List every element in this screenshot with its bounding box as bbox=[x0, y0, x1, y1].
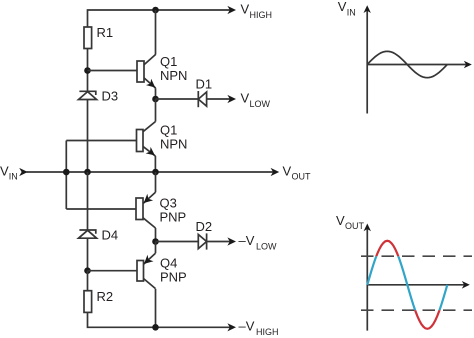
svg-text:D4: D4 bbox=[102, 227, 119, 242]
wire bottom rail bbox=[88, 312, 231, 327]
svg-text:R2: R2 bbox=[97, 289, 114, 304]
wire node to D2 bbox=[156, 241, 199, 243]
arrow V_IN input bbox=[19, 168, 28, 176]
svg-text:OUT: OUT bbox=[292, 172, 312, 182]
wire Q1b emitter to rail bbox=[154, 156, 156, 172]
wire top rail to V_HIGH bbox=[88, 10, 231, 27]
svg-text:D1: D1 bbox=[196, 76, 213, 91]
wire Q1 base bbox=[88, 70, 138, 72]
svg-text:OUT: OUT bbox=[345, 221, 365, 231]
arrow V_OUT bbox=[271, 168, 280, 176]
wire Q3 base bbox=[66, 208, 135, 210]
svg-text:R1: R1 bbox=[97, 25, 114, 40]
svg-text:–V: –V bbox=[239, 319, 255, 334]
svg-text:V: V bbox=[283, 163, 292, 178]
svg-text:V: V bbox=[338, 0, 347, 14]
svg-text:V: V bbox=[241, 1, 250, 16]
svg-text:LOW: LOW bbox=[250, 99, 271, 109]
node bottom rail bbox=[152, 324, 159, 331]
graph Vout lower clip level dashed line bbox=[361, 309, 472, 311]
transistor Q1 (top NPN) bbox=[137, 54, 187, 88]
wire input rail V_IN to V_OUT bbox=[27, 171, 274, 173]
graph Vout x-axis bbox=[367, 284, 464, 286]
graph Vout y-axis bbox=[366, 229, 368, 331]
wire node to D1 bbox=[156, 98, 199, 100]
svg-text:Q4: Q4 bbox=[160, 256, 177, 271]
resistor R2 bbox=[84, 291, 92, 313]
graph Vin sine wave bbox=[367, 51, 447, 77]
svg-text:NPN: NPN bbox=[160, 68, 187, 83]
zener diode D3 bbox=[79, 89, 119, 104]
wire Q4 collector to bottom rail bbox=[155, 289, 157, 328]
node Q3/D2/Q4 bbox=[152, 238, 159, 245]
wire Q1b collector to node bbox=[155, 99, 157, 122]
net label V_LOW bbox=[241, 90, 271, 108]
node D4/R2/Q4 base bbox=[84, 267, 91, 274]
wire D4 to node bbox=[87, 238, 89, 271]
svg-text:V: V bbox=[241, 90, 250, 105]
diode D2 bbox=[196, 219, 213, 250]
arrow V_LOW bbox=[227, 95, 236, 103]
net label V_OUT bbox=[283, 163, 312, 181]
wire rail to D4 bbox=[87, 172, 89, 230]
svg-text:LOW: LOW bbox=[256, 241, 277, 251]
net label -V_LOW bbox=[239, 233, 278, 251]
svg-text:–V: –V bbox=[239, 233, 255, 248]
zener diode D4 bbox=[79, 227, 119, 242]
node rail/diode column bbox=[84, 169, 91, 176]
wire D2 to -V_LOW bbox=[207, 241, 231, 243]
wire Q3 emitter from rail bbox=[155, 172, 157, 192]
wire node to R2 bbox=[87, 271, 89, 291]
wire R1 to D3 bbox=[87, 49, 89, 92]
wire Q4 base bbox=[88, 270, 138, 272]
wire Q3 collector to node bbox=[155, 228, 157, 242]
svg-text:V: V bbox=[336, 213, 345, 228]
net label V_IN bbox=[0, 163, 18, 181]
wire D3 to input rail bbox=[87, 100, 89, 173]
graph Vin label bbox=[338, 0, 356, 17]
wire left loop vertical bbox=[65, 141, 67, 210]
node Q1 emitter / D1 / Q1 collector bbox=[152, 96, 159, 103]
graph Vin x-axis bbox=[367, 64, 466, 66]
net label -V_HIGH bbox=[239, 319, 279, 337]
wire Q1b base bbox=[66, 140, 136, 142]
svg-text:D3: D3 bbox=[102, 89, 119, 104]
node top rail junction bbox=[152, 7, 159, 14]
net label V_HIGH bbox=[241, 1, 273, 19]
node R1/D3/Q1 base bbox=[84, 67, 91, 74]
transistor Q1 (middle NPN) bbox=[137, 122, 188, 157]
svg-text:Q1: Q1 bbox=[160, 54, 177, 69]
svg-text:IN: IN bbox=[347, 7, 356, 17]
wire Q1 emitter to node bbox=[155, 88, 157, 99]
svg-text:IN: IN bbox=[9, 172, 18, 182]
svg-text:HIGH: HIGH bbox=[250, 10, 273, 20]
graph Vout sine wave blue segments bbox=[367, 241, 447, 329]
transistor Q4 (PNP) bbox=[137, 253, 187, 288]
svg-text:D2: D2 bbox=[196, 219, 213, 234]
graph Vout upper clip level dashed line bbox=[361, 255, 472, 257]
svg-text:HIGH: HIGH bbox=[256, 327, 279, 337]
svg-text:NPN: NPN bbox=[160, 137, 187, 152]
transistor Q3 (PNP) bbox=[136, 192, 186, 228]
svg-text:Q1: Q1 bbox=[160, 123, 177, 138]
wire D1 to V_LOW bbox=[207, 98, 231, 100]
node rail/left loop bbox=[63, 169, 70, 176]
svg-text:PNP: PNP bbox=[160, 270, 187, 285]
wire Q4 emitter from node bbox=[155, 242, 157, 254]
arrow -V_LOW bbox=[227, 237, 236, 245]
arrow -V_HIGH bbox=[227, 323, 236, 331]
svg-text:V: V bbox=[0, 163, 9, 178]
node rail/emitters bbox=[152, 169, 159, 176]
graph Vout sine wave red clipped segments bbox=[367, 241, 447, 329]
graph Vout label bbox=[336, 213, 365, 231]
wire Q1 collector to top rail bbox=[155, 10, 157, 55]
resistor R1 bbox=[84, 27, 92, 49]
svg-text:PNP: PNP bbox=[160, 210, 187, 225]
diode D1 bbox=[196, 76, 213, 107]
arrow V_HIGH bbox=[227, 6, 236, 14]
graph Vin y-axis bbox=[366, 10, 368, 114]
svg-text:Q3: Q3 bbox=[160, 196, 177, 211]
